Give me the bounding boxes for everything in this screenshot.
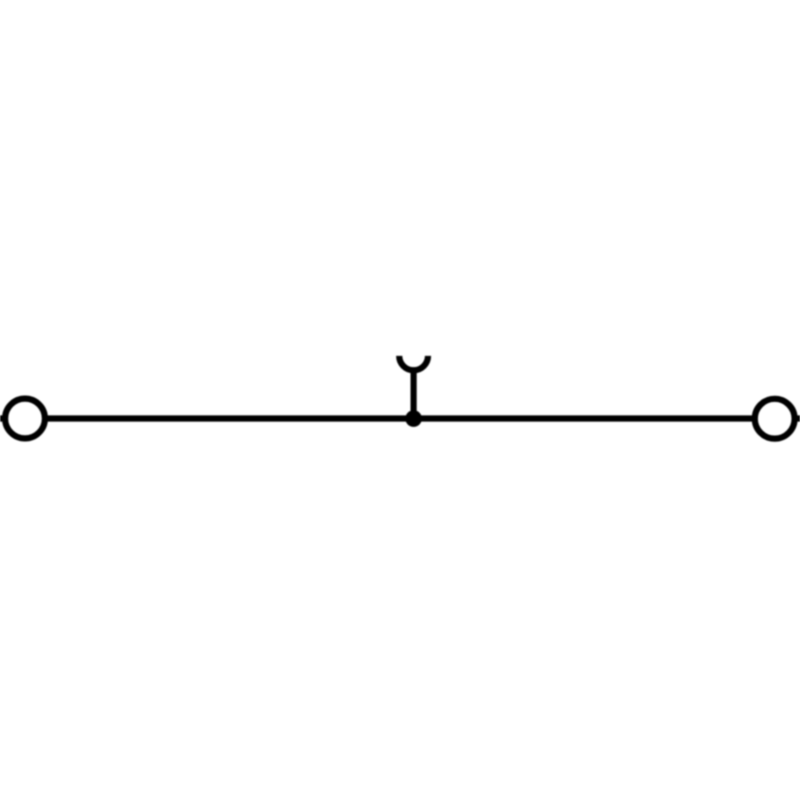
terminal circle left (clamp point 1)	[5, 399, 45, 439]
junction (solder dot)	[405, 410, 422, 427]
wire: vertical stub from junction up to test tap	[411, 368, 417, 419]
wire: main horizontal conductor	[0, 415, 800, 421]
test-socket arc (upward-opening semicircle)	[399, 356, 428, 370]
terminal circle right (clamp point 2)	[755, 399, 795, 439]
